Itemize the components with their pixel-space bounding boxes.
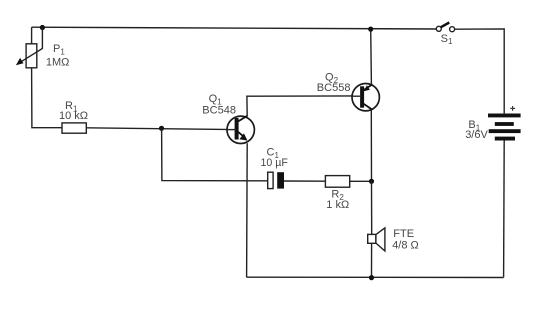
wire: switch S1 to top-right corner down to battery: [455, 29, 505, 114]
wire: bottom rail: [247, 276, 504, 278]
resistor R2: [325, 176, 349, 188]
transistor Q1 base lead: [227, 129, 236, 131]
wire: node B down and right to C1 left plate: [162, 128, 268, 181]
label Q1: [209, 93, 223, 106]
battery B1 plates: [488, 114, 521, 141]
label 1MΩ: [46, 56, 70, 68]
transistor Q2 base lead: [352, 95, 362, 97]
transistor Q2 base bar: [360, 86, 364, 107]
label 3/6V: [465, 129, 488, 141]
label 1 kΩ: [326, 199, 349, 211]
node A (junction dot, top rail / P1 wiper): [40, 25, 45, 30]
label Q2: [325, 72, 339, 85]
label 10 µF: [261, 157, 289, 169]
label BC548: [202, 104, 236, 116]
potentiometer P1 body: [26, 44, 37, 68]
transistor Q1 emitter lead with arrow: [238, 132, 248, 141]
wire: node D down to speaker: [371, 181, 373, 234]
label P1: [53, 43, 65, 56]
node E (junction dot on bottom rail): [369, 275, 374, 280]
switch S1: [436, 23, 454, 32]
svg-text:P1: P1: [53, 43, 65, 56]
wire: speaker bottom to node E on bottom rail: [371, 243, 373, 277]
svg-text:BC548: BC548: [202, 104, 236, 116]
transistor Q2 emitter lead with arrow (PNP): [362, 84, 372, 91]
label + (battery polarity): [510, 106, 515, 111]
svg-text:3/6V: 3/6V: [465, 129, 488, 141]
label B1: [468, 119, 480, 132]
label C1: [267, 147, 280, 160]
label R2: [331, 188, 344, 201]
svg-text:1 kΩ: 1 kΩ: [326, 199, 349, 211]
svg-text:S1: S1: [441, 33, 453, 46]
transistor Q1 circle: [227, 116, 254, 143]
potentiometer P1 wiper arrow: [16, 28, 43, 66]
wire: R1 right to Q1 base: [86, 128, 234, 130]
wire: Q2 emitter up to top rail node C: [370, 29, 373, 84]
label S1: [441, 33, 453, 46]
wire: Q1 emitter down to bottom rail: [246, 143, 249, 277]
svg-text:1MΩ: 1MΩ: [46, 56, 70, 68]
speaker FTE: [368, 228, 385, 251]
node D (junction dot, R2 / Q2 collector / speaker): [369, 179, 374, 184]
svg-text:BC558: BC558: [317, 82, 351, 94]
wire: R2 right to node D: [350, 180, 372, 182]
node C (junction dot on top rail): [368, 27, 373, 32]
capacitor C1 right plate: [277, 172, 284, 188]
wire: left drop from top rail to P1 top: [31, 27, 33, 44]
wire: Q2 collector down to node D: [370, 110, 372, 181]
label 4/8 Ω: [392, 239, 419, 251]
label 10 kΩ: [59, 110, 88, 122]
svg-text:FTE: FTE: [393, 228, 414, 240]
wire: P1 bottom to R1 left: [32, 68, 62, 128]
transistor Q2 collector lead: [364, 104, 373, 110]
svg-text:10 kΩ: 10 kΩ: [59, 110, 88, 122]
svg-text:10 µF: 10 µF: [261, 157, 289, 169]
transistor Q1 collector lead: [238, 116, 247, 122]
wire: C1 right plate to R2 left: [284, 180, 325, 182]
wire: top rail left segment (node A to switch S1): [32, 27, 437, 29]
node B (junction dot on R1–Q1 base wire): [159, 126, 164, 131]
resistor R1: [62, 123, 86, 133]
wire: battery bottom to bottom-right corner: [503, 141, 506, 278]
transistor Q2 circle: [352, 84, 379, 111]
label FTE: [393, 228, 414, 240]
wire: Q1 collector up and right to Q2 base: [247, 96, 359, 116]
capacitor C1 left plate: [268, 172, 273, 188]
label R1: [65, 100, 78, 113]
svg-text:4/8 Ω: 4/8 Ω: [392, 239, 419, 251]
transistor Q1 base bar: [235, 118, 239, 140]
label BC558: [317, 82, 351, 94]
